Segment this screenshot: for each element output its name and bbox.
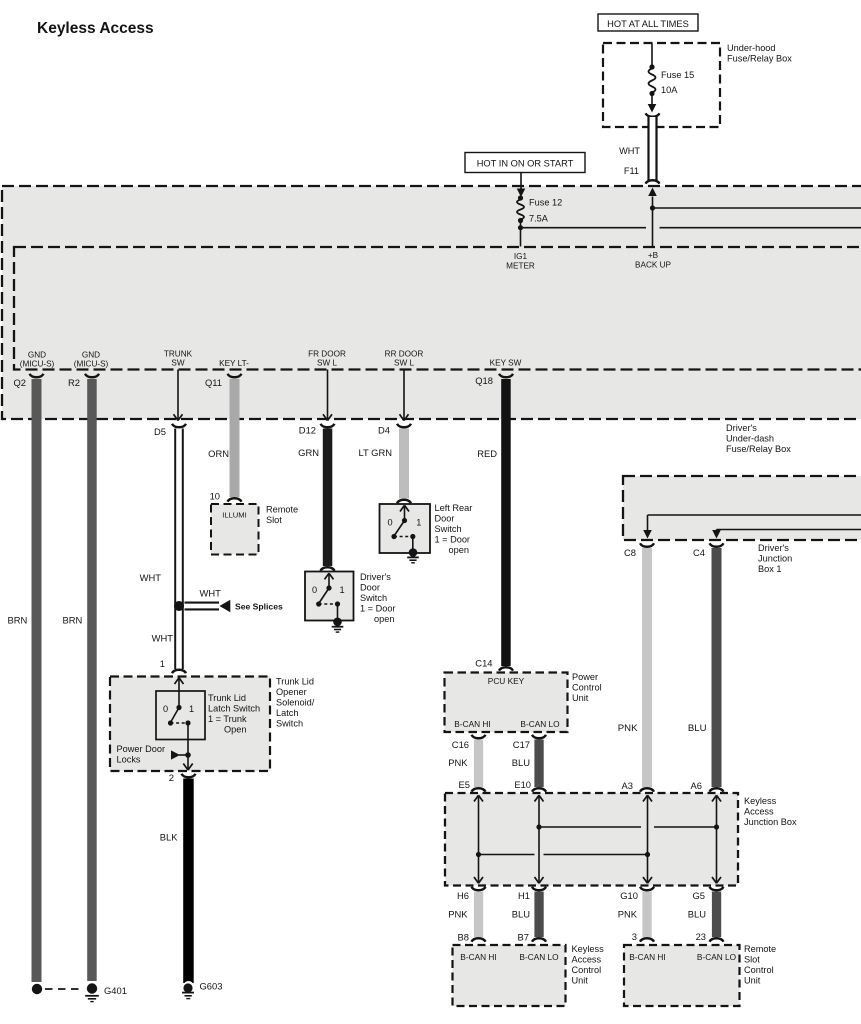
svg-text:SW L: SW L xyxy=(317,359,337,368)
svg-text:Slot: Slot xyxy=(266,515,282,525)
svg-text:2: 2 xyxy=(169,772,174,783)
svg-text:Box 1: Box 1 xyxy=(758,564,782,574)
svg-text:Q11: Q11 xyxy=(205,377,222,388)
svg-text:3: 3 xyxy=(632,931,637,942)
svg-text:See Splices: See Splices xyxy=(235,602,283,612)
svg-text:HOT IN ON OR START: HOT IN ON OR START xyxy=(477,159,574,169)
svg-text:PCU KEY: PCU KEY xyxy=(488,676,525,686)
svg-text:PNK: PNK xyxy=(618,723,638,734)
svg-text:LT GRN: LT GRN xyxy=(358,447,392,458)
svg-text:Switch: Switch xyxy=(276,719,303,729)
svg-text:(MICU-S): (MICU-S) xyxy=(74,360,109,369)
svg-text:BLU: BLU xyxy=(688,723,707,734)
svg-text:B7: B7 xyxy=(518,932,529,943)
svg-text:D4: D4 xyxy=(378,425,390,436)
svg-text:WHT: WHT xyxy=(619,146,640,156)
svg-text:Remote: Remote xyxy=(744,944,776,954)
svg-text:1 = Door: 1 = Door xyxy=(360,604,396,614)
svg-text:Control: Control xyxy=(572,683,602,693)
svg-text:Slot: Slot xyxy=(744,955,760,965)
svg-text:BRN: BRN xyxy=(63,615,83,626)
svg-text:open: open xyxy=(449,545,469,555)
svg-text:B-CAN HI: B-CAN HI xyxy=(629,952,665,962)
svg-text:B-CAN HI: B-CAN HI xyxy=(460,952,496,962)
svg-text:C14: C14 xyxy=(475,658,492,669)
svg-text:BLU: BLU xyxy=(512,757,530,768)
svg-text:BACK UP: BACK UP xyxy=(635,261,671,270)
svg-text:Door: Door xyxy=(435,514,455,524)
svg-text:F11: F11 xyxy=(624,166,639,176)
svg-text:PNK: PNK xyxy=(448,909,468,920)
svg-text:Solenoid/: Solenoid/ xyxy=(276,698,315,708)
svg-text:D12: D12 xyxy=(299,425,316,436)
svg-text:BLK: BLK xyxy=(160,832,178,843)
svg-text:Under-dash: Under-dash xyxy=(726,434,774,444)
svg-text:WHT: WHT xyxy=(152,633,174,644)
svg-text:Left Rear: Left Rear xyxy=(435,503,473,513)
svg-text:KEY SW: KEY SW xyxy=(490,359,522,368)
svg-text:C4: C4 xyxy=(693,547,705,558)
svg-text:Power: Power xyxy=(572,672,598,682)
svg-text:SW L: SW L xyxy=(394,359,414,368)
svg-text:Locks: Locks xyxy=(117,755,141,765)
svg-text:FR DOOR: FR DOOR xyxy=(308,350,346,359)
svg-text:Trunk Lid: Trunk Lid xyxy=(208,693,246,703)
svg-text:Unit: Unit xyxy=(572,693,589,703)
svg-text:ORN: ORN xyxy=(208,448,229,459)
svg-text:WHT: WHT xyxy=(200,588,222,599)
svg-text:RR DOOR: RR DOOR xyxy=(385,350,424,359)
svg-text:PNK: PNK xyxy=(448,757,468,768)
svg-text:1: 1 xyxy=(160,658,165,669)
svg-text:Power Door: Power Door xyxy=(117,744,166,754)
svg-text:Switch: Switch xyxy=(435,524,462,534)
svg-text:D5: D5 xyxy=(154,426,166,437)
svg-text:1: 1 xyxy=(339,585,344,595)
svg-text:Latch Switch: Latch Switch xyxy=(208,704,260,714)
svg-text:C17: C17 xyxy=(513,739,530,750)
svg-text:METER: METER xyxy=(506,262,535,271)
svg-text:1: 1 xyxy=(189,704,194,714)
svg-text:WHT: WHT xyxy=(140,572,162,583)
svg-text:Q18: Q18 xyxy=(475,375,493,386)
svg-text:GRN: GRN xyxy=(298,447,319,458)
svg-text:Junction Box: Junction Box xyxy=(744,817,797,827)
svg-text:G401: G401 xyxy=(104,985,127,996)
svg-text:Keyless: Keyless xyxy=(572,944,605,954)
svg-text:Driver's: Driver's xyxy=(758,543,789,553)
svg-text:B-CAN LO: B-CAN LO xyxy=(697,952,737,962)
svg-text:10A: 10A xyxy=(661,85,678,95)
svg-text:Remote: Remote xyxy=(266,505,298,515)
svg-text:Driver's: Driver's xyxy=(726,423,757,433)
svg-text:G5: G5 xyxy=(692,890,705,901)
svg-text:Fuse 15: Fuse 15 xyxy=(661,70,694,80)
svg-text:23: 23 xyxy=(696,931,706,942)
svg-text:E10: E10 xyxy=(514,779,531,790)
svg-text:Fuse 12: Fuse 12 xyxy=(529,198,562,208)
svg-text:GND: GND xyxy=(28,351,46,360)
svg-text:Fuse/Relay Box: Fuse/Relay Box xyxy=(727,54,792,64)
svg-text:B8: B8 xyxy=(458,932,469,943)
svg-text:IG1: IG1 xyxy=(514,252,528,261)
svg-text:Q2: Q2 xyxy=(13,377,26,388)
svg-text:Driver's: Driver's xyxy=(360,572,391,582)
svg-text:H1: H1 xyxy=(518,890,530,901)
svg-text:10: 10 xyxy=(210,491,220,502)
svg-text:PNK: PNK xyxy=(618,909,638,920)
svg-text:H6: H6 xyxy=(457,890,469,901)
svg-text:RED: RED xyxy=(477,448,497,459)
svg-text:BRN: BRN xyxy=(8,615,28,626)
svg-text:Opener: Opener xyxy=(276,687,307,697)
svg-text:B-CAN LO: B-CAN LO xyxy=(519,952,559,962)
svg-text:B-CAN LO: B-CAN LO xyxy=(520,719,560,729)
svg-text:B-CAN HI: B-CAN HI xyxy=(454,719,490,729)
svg-text:Open: Open xyxy=(224,725,246,735)
svg-text:Access: Access xyxy=(572,955,602,965)
svg-text:0: 0 xyxy=(312,585,317,595)
svg-text:Keyless: Keyless xyxy=(744,796,777,806)
svg-text:C8: C8 xyxy=(624,547,636,558)
svg-text:A3: A3 xyxy=(622,780,633,791)
svg-text:Switch: Switch xyxy=(360,593,387,603)
svg-text:R2: R2 xyxy=(68,377,80,388)
svg-text:0: 0 xyxy=(387,518,392,528)
svg-text:1: 1 xyxy=(416,518,421,528)
svg-text:A6: A6 xyxy=(691,780,702,791)
svg-text:E5: E5 xyxy=(459,779,470,790)
svg-text:Unit: Unit xyxy=(572,976,589,986)
svg-text:KEY LT-: KEY LT- xyxy=(219,359,249,368)
svg-text:ILLUMI: ILLUMI xyxy=(222,511,246,520)
svg-text:BLU: BLU xyxy=(688,909,706,920)
svg-text:7.5A: 7.5A xyxy=(529,214,549,224)
svg-text:GND: GND xyxy=(82,351,100,360)
svg-text:Junction: Junction xyxy=(758,554,792,564)
svg-text:open: open xyxy=(374,614,394,624)
svg-text:Control: Control xyxy=(572,965,602,975)
svg-text:C16: C16 xyxy=(452,739,469,750)
svg-text:Door: Door xyxy=(360,583,380,593)
svg-text:(MICU-S): (MICU-S) xyxy=(20,360,55,369)
svg-text:HOT AT ALL TIMES: HOT AT ALL TIMES xyxy=(607,19,689,29)
svg-text:SW: SW xyxy=(171,359,184,368)
svg-text:Keyless Access: Keyless Access xyxy=(37,20,154,37)
svg-text:Control: Control xyxy=(744,965,774,975)
svg-text:Unit: Unit xyxy=(744,976,761,986)
svg-text:Trunk Lid: Trunk Lid xyxy=(276,677,314,687)
svg-text:Latch: Latch xyxy=(276,708,298,718)
svg-text:G603: G603 xyxy=(200,981,223,992)
svg-text:+B: +B xyxy=(648,251,659,260)
svg-text:1 = Door: 1 = Door xyxy=(435,535,471,545)
svg-text:G10: G10 xyxy=(620,890,638,901)
svg-text:Access: Access xyxy=(744,807,774,817)
svg-text:0: 0 xyxy=(163,704,168,714)
svg-text:Under-hood: Under-hood xyxy=(727,43,776,53)
svg-text:TRUNK: TRUNK xyxy=(164,350,193,359)
svg-text:Fuse/Relay Box: Fuse/Relay Box xyxy=(726,444,791,454)
svg-text:1 = Trunk: 1 = Trunk xyxy=(208,714,247,724)
svg-text:BLU: BLU xyxy=(512,909,530,920)
